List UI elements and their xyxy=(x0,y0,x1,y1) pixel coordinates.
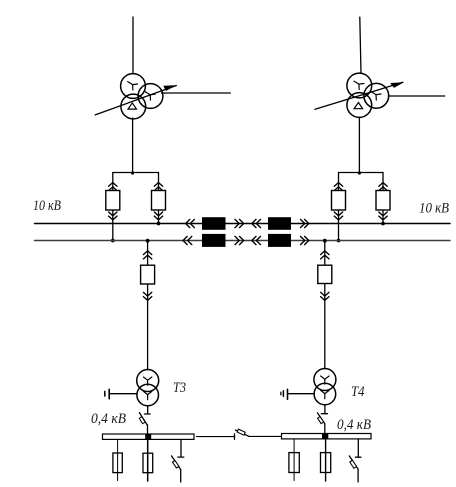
switch QS2 fuse element on blade xyxy=(318,417,324,424)
bus-tie breaker QB3 contacts right (busbar B) xyxy=(235,236,244,244)
bus-tie breaker QB2 body (busbar A) xyxy=(268,217,291,230)
wire feeder 1 left bus xyxy=(117,440,119,481)
T1 HV winding wye symbol xyxy=(128,82,138,90)
node split junction left xyxy=(131,171,134,174)
wire feeder 2 right bus xyxy=(325,439,327,481)
wire branch to breaker Q1 xyxy=(112,173,114,241)
breaker Q6 body xyxy=(318,265,332,283)
switch QS4 fixed contact xyxy=(178,456,184,458)
T4 earth third bar xyxy=(280,392,282,395)
fuse FU4 xyxy=(321,453,331,473)
T3 neutral earthing conductor xyxy=(109,393,137,395)
wire QS2 to right 0.4kV busbar xyxy=(324,424,326,434)
transformer T2 (three-winding, with on-load tap changer) xyxy=(347,73,389,117)
bus-tie breaker QB1 contacts left (busbar A) xyxy=(186,219,195,227)
node T4 connection on 0.4kV busbar xyxy=(322,433,328,439)
svg-text:0,4 кВ: 0,4 кВ xyxy=(91,411,126,427)
breaker Q5 body xyxy=(141,265,155,284)
switch QS1 fixed contact xyxy=(144,413,150,415)
breaker Q1 withdrawable contacts (lower) xyxy=(109,212,117,220)
transformer T1 (three-winding, with on-load tap changer) xyxy=(121,74,163,119)
svg-text:10 кВ: 10 кВ xyxy=(419,201,449,217)
wire branch to breaker Q3 xyxy=(338,173,340,241)
breaker Q1 withdrawable contacts (upper) xyxy=(109,183,117,191)
busbar B 10kV xyxy=(35,240,451,242)
wire branch to breaker Q2 xyxy=(158,173,160,224)
wire T2 tertiary output xyxy=(389,95,445,97)
tie switch QS3 fixed contact xyxy=(234,434,236,439)
T1 LV winding delta symbol xyxy=(128,103,137,109)
breaker Q3 body xyxy=(332,191,346,211)
T1 MV winding wye symbol xyxy=(145,92,155,100)
wire split bar right xyxy=(339,172,384,174)
tie switch QS3 blade xyxy=(236,430,249,436)
wire QS1 to left 0.4kV busbar xyxy=(147,425,149,434)
T4 earth second bar xyxy=(282,391,284,397)
node split junction right xyxy=(358,171,361,174)
bus-tie breaker QB3 body (busbar B) xyxy=(202,234,226,247)
T3 earth second bar xyxy=(104,391,106,396)
breaker Q4 body xyxy=(376,191,390,211)
switch feeder QS4 stub from left bus xyxy=(180,440,182,457)
node Q2 to busbar A xyxy=(157,222,161,226)
wire T2 secondary down to split xyxy=(358,118,360,173)
breaker Q2 withdrawable contacts (upper) xyxy=(154,183,162,191)
switch QS1 blade xyxy=(139,413,147,425)
breaker Q4 withdrawable contacts (lower) xyxy=(379,212,387,220)
bus-tie breaker QB2 contacts right (busbar A) xyxy=(301,219,309,227)
wire bus-tie right segment xyxy=(249,435,282,437)
breaker Q3 withdrawable contacts (lower) xyxy=(334,212,342,220)
wire feeder from busbar B to T3 xyxy=(147,241,149,370)
wire incoming supply line to T2 xyxy=(360,17,361,73)
T2 tap-changer arrow xyxy=(315,82,404,109)
T2 MV winding wye symbol xyxy=(371,92,381,100)
node T3 connection on 0.4kV busbar xyxy=(145,434,151,440)
T3 earth electrode bar xyxy=(108,389,110,398)
breaker Q6 withdrawable contacts (lower) xyxy=(321,292,329,300)
wire T1 secondary down to split xyxy=(132,118,134,173)
bus-tie breaker QB4 contacts left (busbar B) xyxy=(252,236,261,244)
wire branch to breaker Q4 xyxy=(382,173,384,224)
breaker Q1 body xyxy=(106,191,120,211)
bus-tie breaker QB4 contacts right (busbar B) xyxy=(301,236,309,244)
T4 earth electrode bar xyxy=(287,389,289,399)
breaker Q4 withdrawable contacts (upper) xyxy=(379,183,387,191)
breaker Q2 body xyxy=(152,191,166,211)
svg-text:10 кВ: 10 кВ xyxy=(33,198,61,214)
busbar 0.4kV right (section 2) xyxy=(282,434,372,439)
switch QS1 fuse element on blade xyxy=(139,417,145,424)
wire T1 tertiary output xyxy=(162,92,231,94)
switch QS2 fixed contact xyxy=(321,413,327,415)
wire T4 to switch QS2 xyxy=(324,405,326,414)
svg-text:Т3: Т3 xyxy=(173,380,186,396)
transformer T4 (10/0.4 kV) xyxy=(314,369,336,405)
breaker Q3 withdrawable contacts (upper) xyxy=(334,183,342,191)
wire below QS5 xyxy=(357,469,359,482)
node Q1 to busbar B xyxy=(111,239,115,243)
busbar 0.4kV left (section 1) xyxy=(103,434,195,439)
busbar A 10kV xyxy=(35,223,451,225)
bus-tie breaker QB2 contacts left (busbar A) xyxy=(252,219,261,227)
bus-tie breaker QB4 body (busbar B) xyxy=(268,234,291,247)
bus-tie breaker QB1 contacts right (busbar A) xyxy=(235,219,244,227)
fuse FU2 xyxy=(143,453,153,473)
wire below QS4 xyxy=(180,470,182,482)
wire feeder from busbar B to T4 xyxy=(324,241,326,369)
T1 tap-changer arrow xyxy=(95,85,176,115)
bus-tie breaker QB1 body (busbar A) xyxy=(202,217,226,230)
svg-text:Т4: Т4 xyxy=(351,384,365,400)
breaker Q6 withdrawable contacts (upper) xyxy=(321,251,329,259)
transformer T3 (10/0.4 kV) xyxy=(137,370,159,406)
breaker Q5 withdrawable contacts (upper) xyxy=(143,251,151,259)
switch QS2 blade xyxy=(317,413,324,424)
switch QS4 fuse element on blade xyxy=(172,461,178,468)
wire bus-tie left segment xyxy=(197,436,235,438)
T4 neutral earthing conductor xyxy=(288,393,315,395)
node Q3 to busbar B xyxy=(337,239,341,243)
wire T3 to switch QS1 xyxy=(147,406,149,414)
tie switch QS3 fuse element on blade xyxy=(237,429,245,435)
switch QS5 blade xyxy=(349,456,358,469)
node feeder tap to Q5 on busbar B xyxy=(146,239,150,243)
breaker Q2 withdrawable contacts (lower) xyxy=(154,212,162,220)
T2 HV winding wye symbol xyxy=(354,81,364,89)
wire feeder 2 left bus xyxy=(147,440,149,481)
switch QS5 fuse element on blade xyxy=(350,460,357,468)
breaker Q5 withdrawable contacts (lower) xyxy=(143,292,151,300)
T4 primary wye symbol xyxy=(321,376,329,384)
switch feeder QS5 stub from right bus xyxy=(357,439,359,457)
svg-text:0,4 кВ: 0,4 кВ xyxy=(337,417,371,433)
switch QS5 fixed contact xyxy=(355,456,361,458)
fuse FU3 xyxy=(289,453,299,473)
T2 LV winding delta symbol xyxy=(354,103,363,109)
switch QS4 blade xyxy=(172,456,181,470)
node Q4 to busbar A xyxy=(381,222,385,226)
T4 secondary wye symbol xyxy=(321,390,329,398)
node feeder tap to Q6 on busbar B xyxy=(323,239,327,243)
wire split bar left xyxy=(113,172,159,174)
bus-tie breaker QB3 contacts left (busbar B) xyxy=(183,236,192,244)
wire feeder 1 right bus xyxy=(293,439,295,481)
T3 secondary wye symbol xyxy=(144,391,152,399)
fuse FU1 xyxy=(113,453,122,473)
wire incoming supply line to T1 xyxy=(132,17,134,74)
T3 primary wye symbol xyxy=(144,377,152,385)
